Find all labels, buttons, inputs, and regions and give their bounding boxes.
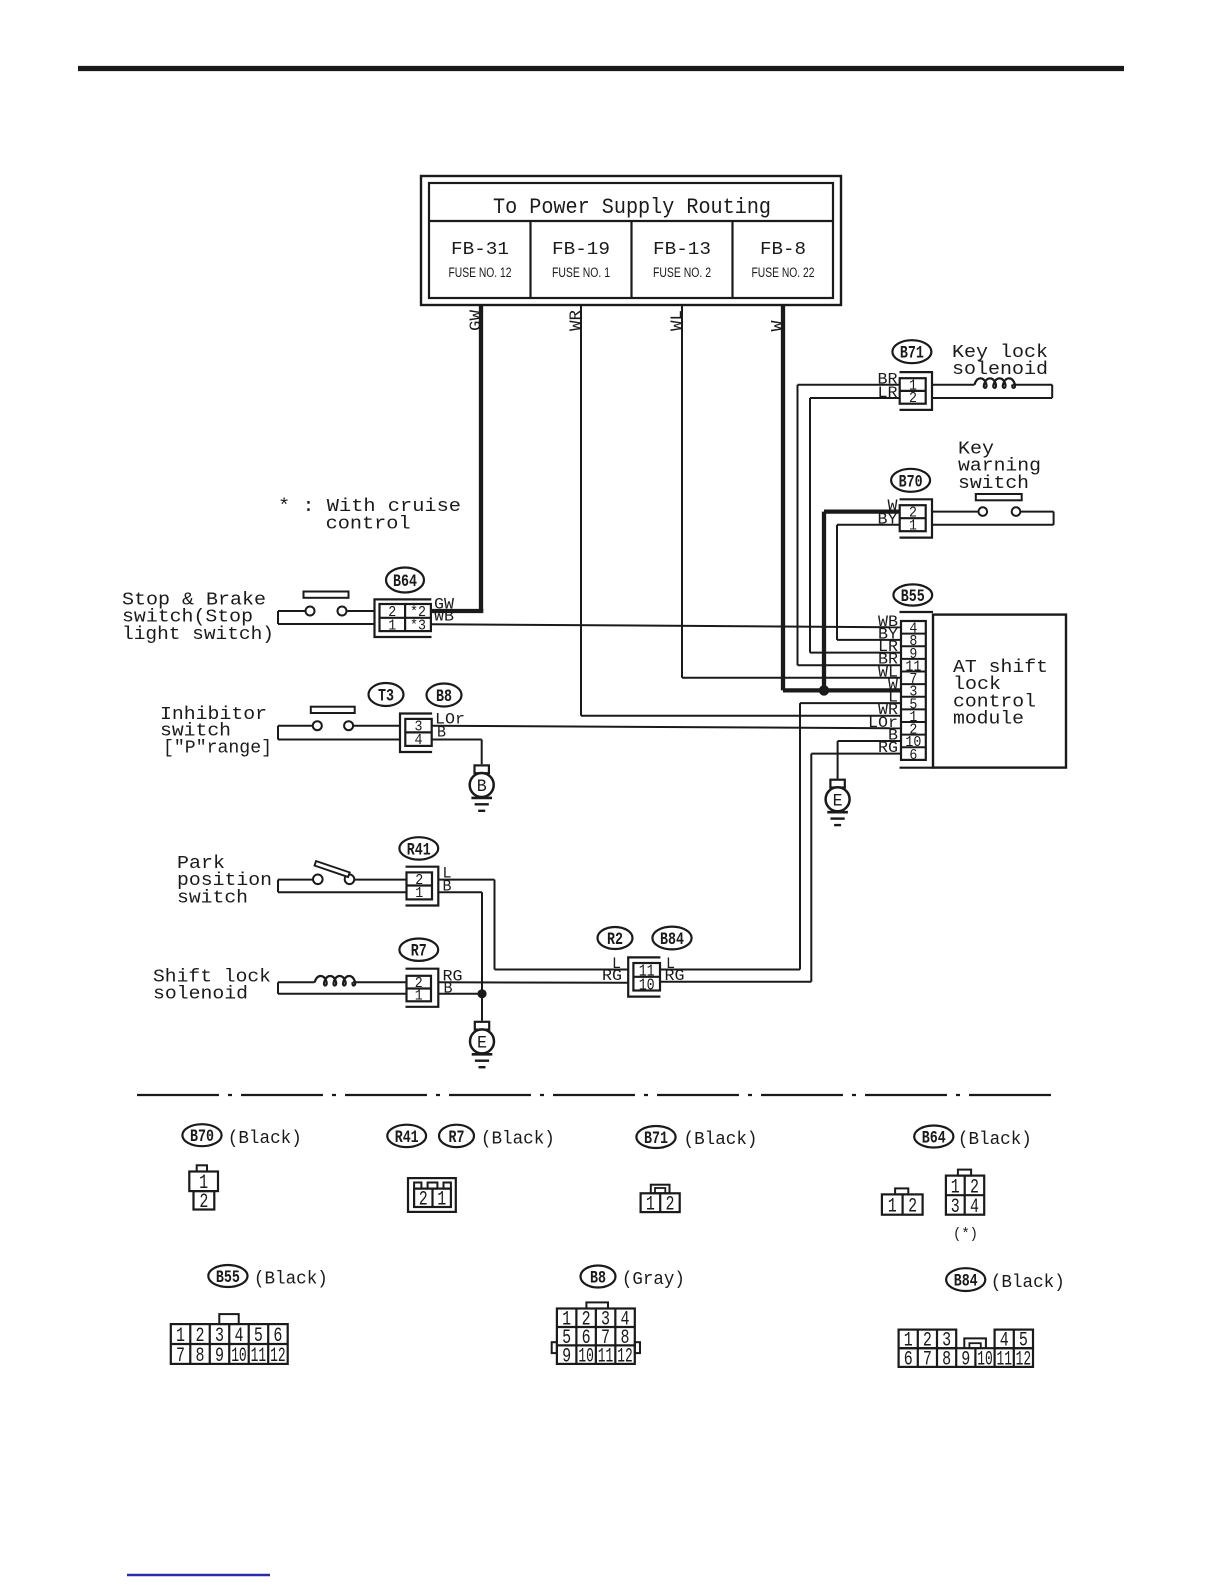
svg-text:10: 10 (639, 975, 655, 994)
svg-text:9: 9 (215, 1345, 224, 1368)
svg-text:["P"range]: ["P"range] (163, 738, 272, 758)
svg-text:E: E (477, 1034, 487, 1054)
svg-text:11: 11 (251, 1345, 267, 1368)
svg-text:2: 2 (909, 390, 917, 407)
svg-text:switch: switch (177, 888, 248, 908)
svg-text:(Black): (Black) (481, 1130, 555, 1150)
svg-text:FUSE NO. 1: FUSE NO. 1 (552, 265, 610, 280)
svg-text:1: 1 (888, 1195, 897, 1218)
svg-text:B70: B70 (899, 472, 923, 492)
svg-text:2: 2 (666, 1194, 675, 1217)
svg-text:FB-19: FB-19 (552, 240, 610, 260)
svg-text:8: 8 (942, 1348, 951, 1371)
svg-text:2: 2 (908, 1195, 917, 1218)
svg-text:(*): (*) (953, 1226, 978, 1243)
svg-text:WB: WB (434, 608, 454, 626)
svg-text:11: 11 (996, 1348, 1012, 1371)
svg-text:8: 8 (195, 1345, 204, 1368)
svg-text:B8: B8 (590, 1269, 606, 1289)
svg-text:B: B (477, 777, 487, 797)
svg-text:solenoid: solenoid (153, 985, 248, 1005)
svg-text:3: 3 (951, 1196, 960, 1219)
svg-text:(Black): (Black) (228, 1129, 302, 1149)
svg-text:B55: B55 (901, 587, 925, 607)
svg-text:(Black): (Black) (958, 1130, 1032, 1150)
svg-text:R7: R7 (449, 1128, 465, 1148)
svg-text:switch: switch (958, 474, 1029, 494)
svg-text:LR: LR (878, 384, 898, 402)
svg-text:B84: B84 (660, 930, 684, 950)
svg-text:10: 10 (231, 1345, 247, 1368)
svg-text:4: 4 (970, 1196, 979, 1219)
svg-text:FB-31: FB-31 (451, 240, 509, 260)
svg-text:B71: B71 (900, 344, 924, 364)
svg-text:1: 1 (437, 1189, 446, 1212)
svg-text:(Black): (Black) (684, 1130, 758, 1150)
svg-text:B84: B84 (954, 1272, 978, 1292)
svg-text:B71: B71 (644, 1129, 668, 1149)
svg-text:1: 1 (646, 1194, 655, 1217)
svg-text:light switch): light switch) (122, 625, 274, 645)
svg-text:9: 9 (961, 1348, 970, 1371)
svg-text:FUSE NO. 22: FUSE NO. 22 (752, 265, 815, 280)
svg-text:2: 2 (419, 1189, 428, 1212)
svg-text:W: W (769, 320, 787, 332)
svg-text:B55: B55 (216, 1268, 240, 1288)
svg-text:E: E (833, 792, 843, 812)
svg-text:*3: *3 (410, 618, 426, 635)
svg-text:1: 1 (415, 988, 423, 1005)
svg-text:B64: B64 (393, 572, 417, 592)
svg-text:R41: R41 (407, 840, 431, 860)
svg-text:6: 6 (904, 1348, 913, 1371)
svg-text:(Gray): (Gray) (622, 1270, 685, 1290)
svg-text:7: 7 (176, 1345, 185, 1368)
svg-text:To Power Supply Routing: To Power Supply Routing (493, 195, 771, 220)
svg-text:12: 12 (1016, 1348, 1032, 1371)
svg-text:B64: B64 (922, 1129, 946, 1149)
svg-text:FUSE NO. 2: FUSE NO. 2 (653, 265, 711, 280)
svg-text:11: 11 (598, 1346, 614, 1369)
svg-text:FB-8: FB-8 (760, 240, 806, 260)
svg-text:(Black): (Black) (254, 1270, 328, 1290)
svg-text:1: 1 (909, 518, 917, 535)
svg-text:GW: GW (467, 309, 485, 331)
svg-text:RG: RG (602, 967, 622, 985)
svg-text:1: 1 (415, 885, 423, 902)
svg-text:4: 4 (415, 732, 423, 749)
svg-text:10: 10 (578, 1346, 594, 1369)
svg-text:12: 12 (270, 1345, 286, 1368)
svg-text:12: 12 (617, 1346, 633, 1369)
svg-text:FB-13: FB-13 (653, 240, 711, 260)
svg-text:WL: WL (668, 310, 686, 331)
svg-text:R7: R7 (411, 942, 427, 962)
svg-text:T3: T3 (378, 687, 394, 707)
svg-text:WR: WR (567, 310, 585, 331)
svg-text:(Black): (Black) (991, 1273, 1065, 1293)
svg-text:control: control (326, 515, 411, 535)
svg-text:9: 9 (562, 1346, 571, 1369)
svg-text:module: module (953, 710, 1024, 730)
svg-text:10: 10 (977, 1348, 993, 1371)
svg-text:6: 6 (909, 747, 917, 764)
svg-text:B70: B70 (190, 1127, 214, 1147)
svg-text:FUSE NO. 12: FUSE NO. 12 (449, 265, 512, 280)
svg-text:7: 7 (923, 1348, 932, 1371)
svg-text:solenoid: solenoid (952, 360, 1048, 380)
svg-text:R41: R41 (395, 1128, 419, 1148)
svg-text:R2: R2 (607, 930, 623, 950)
svg-text:B8: B8 (436, 687, 452, 707)
svg-text:2: 2 (199, 1191, 208, 1214)
svg-text:1: 1 (388, 618, 396, 635)
